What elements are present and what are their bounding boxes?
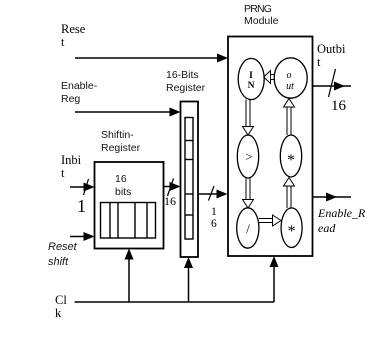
svg-text:Enable_R: Enable_R [317, 206, 366, 220]
svg-text:Reset: Reset [48, 241, 78, 253]
svg-text:Outbi: Outbi [317, 42, 346, 56]
wire Reset-shift into Shiftin-Register [70, 232, 95, 241]
open arrow greater-than to divide [243, 178, 254, 208]
svg-text:16-Bits: 16-Bits [166, 69, 199, 81]
svg-text:PRNG: PRNG [244, 3, 272, 15]
svg-text:Cl: Cl [55, 293, 67, 307]
svg-text:ead: ead [318, 221, 336, 235]
svg-text:Inbi: Inbi [61, 153, 82, 167]
svg-text:>: > [245, 149, 252, 164]
open arrow out to IN [264, 71, 274, 84]
svg-text:I: I [249, 71, 253, 81]
svg-text:t: t [317, 55, 321, 69]
label 16-Bits Register [166, 69, 206, 94]
label Reset shift [48, 241, 78, 268]
op multiply upper ellipse [280, 135, 301, 177]
op IN ellipse [238, 58, 264, 99]
label 1 6 (bus width stacked) [211, 206, 217, 230]
wire Enable to 16-bits register [75, 108, 181, 117]
svg-text:Reg: Reg [61, 93, 80, 105]
op out ellipse [274, 58, 307, 98]
svg-text:1: 1 [211, 206, 217, 218]
svg-text:k: k [55, 306, 62, 320]
svg-text:shift: shift [48, 256, 69, 268]
label Enable-Reg [61, 80, 98, 105]
label Clk [55, 293, 67, 320]
open arrow IN to greater-than [243, 100, 254, 136]
svg-text:Shiftin-: Shiftin- [101, 129, 134, 141]
svg-text:1: 1 [77, 196, 86, 216]
svg-text:bits: bits [115, 186, 131, 198]
wire Inbit into Shiftin-Register [70, 179, 95, 195]
svg-text:o: o [287, 70, 292, 81]
block Shiftin-Register box [95, 162, 164, 249]
label Shiftin-Register [101, 129, 141, 154]
svg-text:Enable-: Enable- [61, 80, 98, 92]
svg-text:Register: Register [166, 82, 206, 94]
label 16 bits [115, 173, 131, 198]
open arrow multiply upper to out [284, 99, 295, 136]
svg-text:*: * [288, 223, 296, 240]
svg-text:16: 16 [115, 173, 127, 185]
op multiply lower ellipse [281, 208, 302, 248]
wire Clk branch to 16-Bits Register [184, 257, 193, 302]
svg-text:t: t [61, 35, 65, 49]
svg-text:N: N [248, 81, 255, 91]
wire Outbit output [313, 69, 352, 97]
block PRNG Module box [228, 37, 313, 257]
open arrow divide to multiply lower [259, 215, 281, 226]
wire Clk branch to Shiftin-Register [125, 249, 134, 303]
svg-text:*: * [287, 152, 295, 169]
wire Enable_Read output [313, 193, 352, 202]
svg-text:16: 16 [331, 98, 347, 114]
label Enable_Read [317, 206, 366, 235]
svg-text:/: / [246, 221, 250, 236]
block 16-Bits Register outer box [181, 102, 199, 258]
svg-text:Module: Module [244, 15, 279, 27]
wire 16-Bits Register to PRNG (16 bus) [198, 186, 228, 201]
wire Reset to PRNG [75, 54, 228, 63]
wire Clk branch to PRNG Module [270, 256, 279, 302]
open arrow multiply lower to multiply upper [284, 178, 295, 209]
svg-text:Register: Register [101, 142, 141, 154]
label Outbit [317, 42, 346, 69]
svg-text:Rese: Rese [61, 22, 86, 36]
svg-text:ut: ut [286, 81, 294, 92]
svg-text:t: t [61, 166, 65, 180]
block Shiftin-Register cells [101, 203, 156, 239]
op divide ellipse [237, 208, 259, 248]
wire Clk horizontal [75, 301, 275, 303]
label PRNG Module [244, 3, 279, 27]
svg-text:6: 6 [211, 218, 217, 230]
wire Shiftin-Register to 16-Bits Register (16 bus) [164, 179, 181, 197]
block 16-Bits Register inner cells [185, 118, 193, 240]
op greater-than ellipse [237, 135, 258, 178]
label Inbit [61, 153, 82, 180]
svg-text:16: 16 [164, 194, 176, 208]
label Reset [61, 22, 86, 49]
